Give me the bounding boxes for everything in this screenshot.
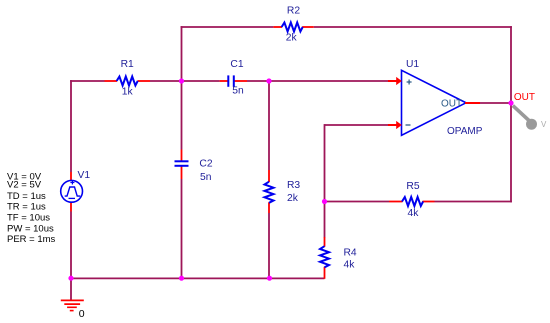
svg-text:TD = 1us: TD = 1us [7,191,46,202]
wire: feedback drop to node A [181,26,183,81]
junction C2/bottom rail [179,276,184,281]
wire: C1 to op-amp + input [247,80,389,82]
svg-text:5n: 5n [232,86,244,97]
svg-text:U1: U1 [406,59,419,70]
svg-text:R3: R3 [287,180,300,191]
svg-text:OUT: OUT [514,92,535,103]
svg-text:R1: R1 [121,59,134,70]
op-amp U1 [402,70,467,135]
wire: right vertical OUT net [510,26,512,202]
junction V1/ground/bottom rail [68,276,73,281]
svg-text:OUT: OUT [441,99,462,110]
wire: ground stem [70,278,72,300]
svg-text:2k: 2k [287,193,299,204]
wire: node B to R3 [268,80,270,170]
wire: input node to R1 [70,80,104,82]
svg-text:4k: 4k [344,260,356,271]
wire: R1 to C1 through node A [150,80,220,82]
wire: top feedback rail left of R2 [181,26,274,28]
capacitor C1 [220,75,247,86]
junction OUT node [508,100,513,105]
resistor R4 [320,237,329,279]
wire: inverting input horizontal [325,124,390,126]
svg-text:C2: C2 [199,159,212,170]
junction node C (R4/R5/inverting) [322,199,327,204]
svg-text:R5: R5 [406,181,419,192]
ground symbol [61,300,84,310]
wire: top feedback rail right of R2 [314,26,512,28]
wire: bottom rail [70,277,324,279]
wire: inverting input drop [324,124,326,201]
wire: C2 to bottom rail [181,179,183,278]
wire: node C to R4 [324,201,326,238]
svg-text:PER = 1ms: PER = 1ms [7,234,56,245]
resistor R5 [389,197,435,206]
voltage source V1 [61,172,83,212]
svg-text:1k: 1k [122,87,134,98]
svg-text:R2: R2 [287,6,300,17]
voltage probe marker [513,106,537,130]
svg-text:OPAMP: OPAMP [447,126,483,137]
resistor R1 [105,77,151,86]
svg-text:C1: C1 [230,59,243,70]
U1 output pin lead [465,102,480,104]
svg-text:TR = 1us: TR = 1us [7,202,46,213]
U1 non-inverting input pin lead [388,77,402,85]
junction R3/bottom rail [267,276,272,281]
svg-text:PW = 10us: PW = 10us [7,224,54,235]
wire: node C to R5 [325,201,390,203]
svg-text:4k: 4k [408,208,420,219]
U1 inverting input pin lead [388,121,402,129]
V1 pulse parameters [7,172,56,246]
wire: node A to C2 [181,81,183,150]
junction node B (C1/R3/op-amp +) [266,78,271,83]
svg-text:V: V [541,120,547,129]
svg-text:5n: 5n [200,172,212,183]
svg-text:V1: V1 [78,170,91,181]
svg-text:0: 0 [79,308,85,320]
wire: op-amp output to OUT node [480,102,511,104]
resistor R3 [265,170,274,213]
svg-text:2k: 2k [286,33,298,44]
wire: V1 top vertical [70,80,72,172]
junction node A (R1/C1/R2 drop) [179,78,184,83]
wire: V1 bottom vertical [70,212,72,279]
resistor R2 [273,23,313,32]
wire: R3 to bottom rail [268,213,270,278]
capacitor C2 [175,150,189,180]
svg-text:TF = 10us: TF = 10us [7,212,50,223]
wire: R5 to OUT vertical [435,201,512,203]
svg-text:V2 = 5V: V2 = 5V [7,179,42,190]
svg-text:R4: R4 [344,248,357,259]
